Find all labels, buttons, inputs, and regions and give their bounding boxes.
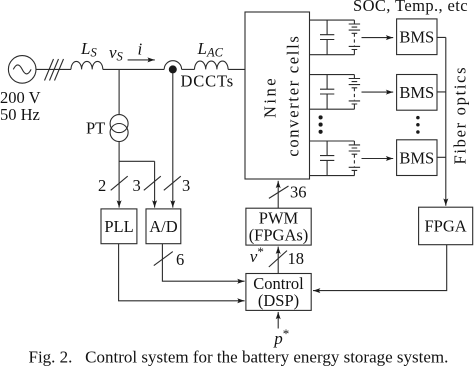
svg-text:6: 6 (176, 250, 184, 269)
svg-text:BMS: BMS (399, 83, 434, 102)
svg-text:BMS: BMS (399, 149, 434, 168)
svg-text:DCCTs: DCCTs (181, 72, 235, 91)
svg-text:PT: PT (86, 119, 105, 138)
svg-text:A/D: A/D (149, 217, 178, 236)
svg-text:SOC, Temp., etc: SOC, Temp., etc (353, 0, 468, 15)
svg-text:Fiber optics: Fiber optics (451, 66, 470, 165)
svg-text:PLL: PLL (104, 217, 133, 236)
svg-text:FPGA: FPGA (425, 217, 467, 236)
svg-text:(FPGAs): (FPGAs) (249, 226, 309, 245)
svg-text:BMS: BMS (399, 28, 434, 47)
svg-text:18: 18 (288, 249, 305, 268)
svg-text:50 Hz: 50 Hz (0, 105, 40, 124)
svg-text:2: 2 (98, 176, 106, 195)
svg-text:3: 3 (182, 176, 190, 195)
svg-text:Nine: Nine (261, 76, 280, 118)
svg-text:36: 36 (290, 183, 307, 202)
svg-text:Fig. 2. Control system for t: Fig. 2. Control system for the battery e… (29, 348, 449, 367)
svg-text:converter cells: converter cells (284, 35, 303, 157)
svg-text:(DSP): (DSP) (258, 291, 299, 310)
svg-text:3: 3 (133, 176, 141, 195)
svg-text:i: i (138, 40, 143, 59)
